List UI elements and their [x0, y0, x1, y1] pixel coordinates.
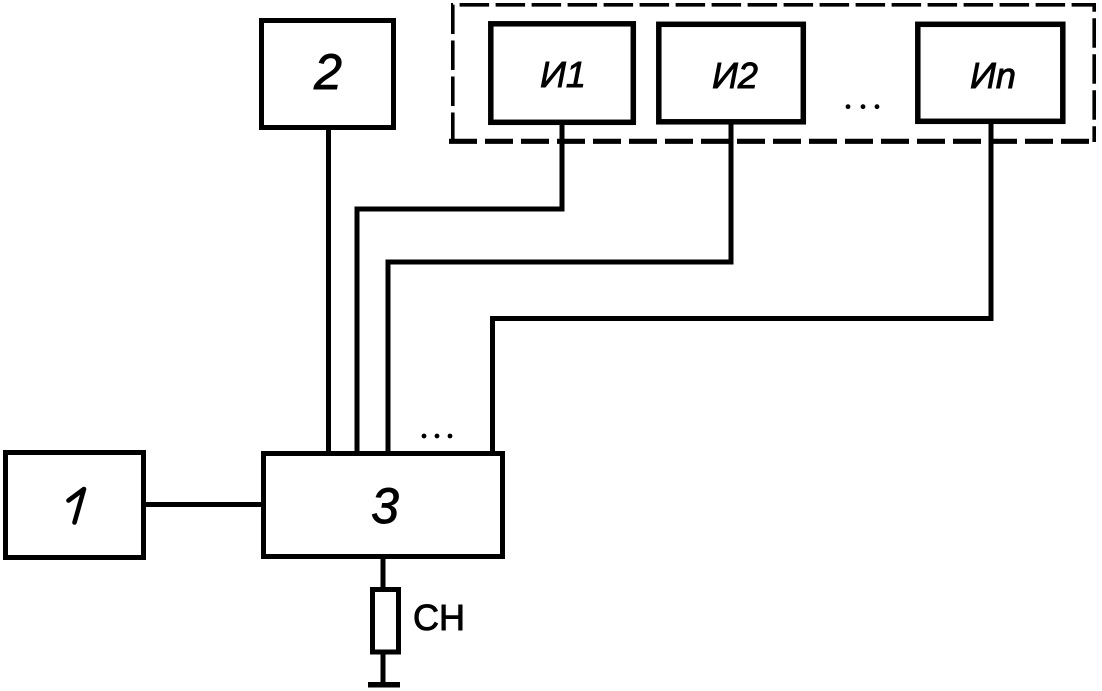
label 1 — [69, 489, 85, 523]
wire: block 3 to load CH — [381, 559, 386, 589]
block 1 — [6, 453, 144, 558]
dashed group frame (sources group) — [453, 5, 1094, 142]
ellipsis between И2 and Иn — [846, 104, 851, 109]
resistor CH (load) — [373, 590, 399, 653]
wire: block 2 to block 3 — [326, 130, 331, 451]
wire: И1 to block 3 — [357, 125, 562, 451]
wire: load CH to ground — [381, 652, 386, 683]
block И2 — [659, 24, 804, 122]
block И1 — [491, 24, 634, 123]
svg-text:И2: И2 — [712, 55, 758, 96]
svg-text:СН: СН — [413, 597, 465, 638]
block 3 — [264, 454, 503, 557]
svg-text:И1: И1 — [540, 54, 586, 95]
ellipsis above block 3 — [422, 434, 427, 439]
svg-text:Иn: Иn — [970, 55, 1016, 96]
svg-text:2: 2 — [313, 44, 342, 100]
wire: Иn to block 3 — [493, 124, 992, 451]
ground — [368, 682, 400, 688]
wire: И2 to block 3 — [388, 125, 731, 452]
svg-text:3: 3 — [371, 478, 399, 534]
block 2 — [262, 21, 394, 128]
block Иn — [918, 24, 1063, 121]
wire: block 1 to block 3 — [146, 502, 261, 507]
